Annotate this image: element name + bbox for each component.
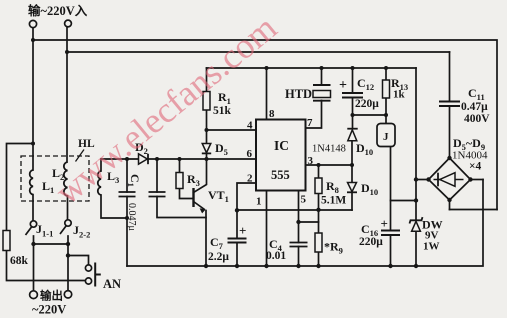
junction D5 cathode / VT1 collector (205, 157, 209, 161)
junction C7 ground (235, 264, 239, 268)
svg-text:2: 2 (247, 173, 253, 185)
wire trigger node horizontal (C7 node to R9/D10 node) (237, 209, 352, 211)
terminal output 2 (64, 291, 71, 298)
switch J2-2 (65, 220, 71, 226)
wire C12 node to R13/J node (353, 114, 387, 116)
svg-text:0.047μ: 0.047μ (126, 203, 137, 231)
HL pointer line (76, 150, 85, 162)
svg-text:D5: D5 (215, 141, 228, 157)
junction R13-J node (384, 113, 388, 117)
junction R8 top pin3 (317, 163, 321, 167)
wire bridge top to C11 (449, 106, 451, 158)
wire J1-1 / J2-2 cross connect (34, 243, 69, 245)
svg-text:1: 1 (256, 196, 262, 208)
wire VT1 emitter to ground rail (205, 211, 207, 267)
junction J1-1 bottom (31, 242, 35, 246)
junction pin8 rail3 (265, 66, 269, 70)
transformer dashed box (21, 156, 89, 201)
wire 555 pin 8 (266, 68, 268, 120)
junction pin2-C7 node (235, 208, 239, 212)
svg-text:×4: ×4 (469, 161, 482, 173)
svg-text:J2-2: J2-2 (73, 223, 90, 240)
svg-text:C11: C11 (468, 86, 485, 102)
wire L3 top to 555 pin 6 line (101, 158, 256, 160)
svg-text:220μ: 220μ (359, 236, 383, 248)
resistor R9 (315, 233, 322, 252)
svg-text:R3: R3 (187, 172, 200, 188)
wire C4 leads (298, 222, 300, 243)
diode D10b (348, 183, 357, 192)
svg-text:D10: D10 (361, 181, 378, 197)
svg-text:J1-1: J1-1 (36, 222, 53, 239)
junction R3 top (178, 157, 182, 161)
svg-text:1W: 1W (423, 241, 440, 253)
resistor R13 (383, 80, 390, 98)
junction input2-rail2 (65, 50, 69, 54)
resistor R1 (203, 92, 210, 111)
svg-text:4: 4 (247, 120, 253, 132)
wire C7 leads (236, 211, 238, 239)
svg-text:400V: 400V (464, 113, 490, 125)
junction input1-rail1 (31, 38, 35, 42)
bridge inner diode (434, 179, 464, 181)
wire C11 top to AC rail 2 (449, 52, 451, 102)
wire bridge AC feed bottom (rail1 down to bridge bottom corner) (450, 209, 498, 211)
svg-text:输~220V入: 输~220V入 (28, 3, 88, 18)
inductor L1 (30, 170, 33, 195)
wire 68k bottom to AN bottom (7, 251, 86, 281)
wire C1 vertical (pin6 line down to ground rail) (126, 159, 128, 192)
diode D5 (202, 144, 211, 153)
svg-text:VT1: VT1 (208, 188, 229, 204)
wire input vertical 2 (right 220V input down to L2/J2-2) (66, 27, 68, 162)
svg-text:R8: R8 (326, 179, 339, 195)
junction pin4 / R1-D5 (205, 128, 209, 132)
wire C16 leads (390, 201, 392, 231)
resistor R3 (176, 173, 183, 189)
junction C2 top (155, 157, 159, 161)
svg-text:+: + (381, 216, 388, 231)
wire bridge left corner to +9V vertical (416, 179, 429, 181)
wire input vertical 1 lower (J1-1 to output terminal 1) (33, 236, 35, 291)
junction VT1 emitter ground (204, 264, 208, 268)
diode D2 (139, 154, 148, 164)
wire relay J bottom to DC+ node (391, 147, 417, 201)
junction bridge bottom corner (447, 198, 451, 202)
wire 555 pin 4 line (207, 129, 257, 131)
junction AN tap (66, 253, 70, 257)
capacitor C1 plates (119, 192, 136, 197)
svg-text:J: J (383, 131, 389, 143)
capacitor C4 plates (290, 243, 308, 247)
zener DW (410, 217, 423, 223)
junction R8 bottom-R9 top (316, 208, 320, 212)
switch J1-1 (30, 221, 36, 227)
diode D10a (1N4148) (347, 128, 357, 130)
wire input vertical 2 lower (J2-2 to output terminal 2) (67, 236, 69, 290)
svg-text:+: + (339, 78, 347, 93)
wire VT1 collector (194, 159, 207, 193)
buzzer HTD (313, 84, 331, 86)
junction bridge top corner (447, 156, 451, 160)
svg-text:C1: C1 (126, 174, 142, 187)
junction DC+ node (414, 198, 418, 202)
svg-text:2.2μ: 2.2μ (208, 251, 229, 263)
terminal input 1 (29, 20, 36, 27)
wire bridge right corner to DC- drop (471, 179, 484, 181)
svg-text:68k: 68k (10, 255, 29, 267)
capacitor C16 plates (polarized) (381, 231, 400, 236)
wire ground rail (bottom) (127, 180, 483, 267)
svg-text:3: 3 (308, 155, 314, 167)
wire C2 vertical (second 0.047 cap) (156, 159, 158, 192)
junction pin1 ground (264, 264, 268, 268)
capacitor C2 plates (0.047u) (149, 192, 166, 197)
junction 68k tap (31, 142, 35, 146)
wire R13 leads (385, 68, 387, 80)
svg-text:输出: 输出 (40, 289, 63, 303)
wire D10b leads (351, 165, 353, 183)
junction bridge left corner (426, 177, 430, 181)
capacitor C11 plates (439, 102, 460, 107)
resistor 68k (3, 231, 10, 251)
wire +9V rail down right side (rail3 to bridge left corner and DW) (415, 68, 417, 201)
capacitor C12 plates (polarized) (342, 93, 363, 98)
wire +9V rail 3 (207, 67, 417, 69)
svg-text:AN: AN (103, 277, 121, 291)
IC 555 box (256, 120, 306, 191)
resistor R8 (315, 178, 322, 194)
wire C12 leads (352, 68, 354, 93)
wire AC rail 2 (second top rail to C11 branch) (67, 51, 450, 53)
svg-text:6: 6 (247, 148, 253, 160)
junction J2-2 cross (66, 242, 70, 246)
svg-text:1k: 1k (393, 89, 406, 101)
svg-text:0.01: 0.01 (266, 250, 286, 262)
svg-text:HTD: HTD (285, 87, 312, 101)
wire HTD leads to pin 7 (321, 68, 323, 85)
svg-text:0.47μ: 0.47μ (461, 101, 488, 113)
svg-text:~220V: ~220V (32, 303, 66, 317)
terminal output 1 (30, 291, 38, 299)
wire DW leads (415, 201, 417, 221)
wire L3 leads (100, 159, 102, 171)
wire 68k branch (tap from input vertical 1 down the left edge) (7, 144, 34, 231)
wire 555 pin 3 line (306, 164, 353, 166)
svg-text:C7: C7 (210, 235, 224, 251)
junction DW ground (414, 264, 418, 268)
wire R1 branch from +9V rail (206, 68, 208, 92)
junction C1 top (125, 157, 129, 161)
svg-text:+: + (239, 223, 246, 238)
terminal input 2 (65, 20, 72, 27)
svg-text:C12: C12 (357, 76, 374, 92)
junction bridge right corner (468, 177, 472, 181)
relay J box (377, 124, 395, 147)
wire AC rail 1 (top, from left input terminal to far right) (33, 40, 497, 210)
junction C12 rail3 (351, 66, 355, 70)
junction R13 rail3 (384, 66, 388, 70)
capacitor C7 plates (polarized) (228, 239, 247, 243)
svg-text:5: 5 (301, 194, 307, 206)
junction C16 ground (388, 264, 392, 268)
svg-text:7: 7 (307, 117, 313, 129)
junction L3 bottom on C1 leg (125, 216, 129, 220)
wire relay J top lead (385, 115, 387, 124)
junction C12 bottom node (351, 113, 355, 117)
svg-text:555: 555 (271, 168, 290, 182)
bridge rectifier D5-D9 diamond (429, 158, 471, 200)
wire 555 pin 5 (298, 191, 300, 223)
svg-text:IC: IC (274, 138, 289, 153)
wire D10a leads (352, 115, 354, 129)
inductor L3 (98, 171, 101, 195)
junction HTD rail3 (320, 66, 324, 70)
pushbutton AN (85, 265, 91, 271)
svg-text:1N4148: 1N4148 (312, 144, 346, 155)
wire J2-2 to AN top (68, 256, 89, 265)
wire D5 leads (206, 130, 208, 144)
wire bridge bottom corner stub (449, 200, 451, 210)
junction C4 ground (296, 264, 300, 268)
transistor VT1 (192, 188, 194, 207)
wire R3 leads (179, 159, 181, 173)
wire 555 pin 1 to ground (266, 191, 268, 267)
junction D10 pair pin3 (350, 163, 354, 167)
wire R8 leads and R9 chain (318, 165, 320, 178)
svg-text:51k: 51k (213, 105, 232, 117)
svg-text:8: 8 (269, 108, 275, 120)
svg-text:*R9: *R9 (324, 240, 343, 256)
junction pin5-C4 node (296, 220, 300, 224)
svg-text:D10: D10 (356, 141, 373, 157)
svg-text:5.1M: 5.1M (321, 195, 346, 207)
junction bridge left corner feed (414, 177, 418, 181)
svg-text:220μ: 220μ (355, 98, 379, 110)
wire 555 pin 2 to C7 node (237, 183, 256, 211)
svg-text:R1: R1 (218, 90, 231, 106)
wire input vertical 1 (left 220V input down to J1-1) (32, 28, 34, 171)
wire pin5 node to R9 top (299, 221, 319, 223)
junction R9 ground (316, 264, 320, 268)
inductor L2 (64, 162, 68, 196)
